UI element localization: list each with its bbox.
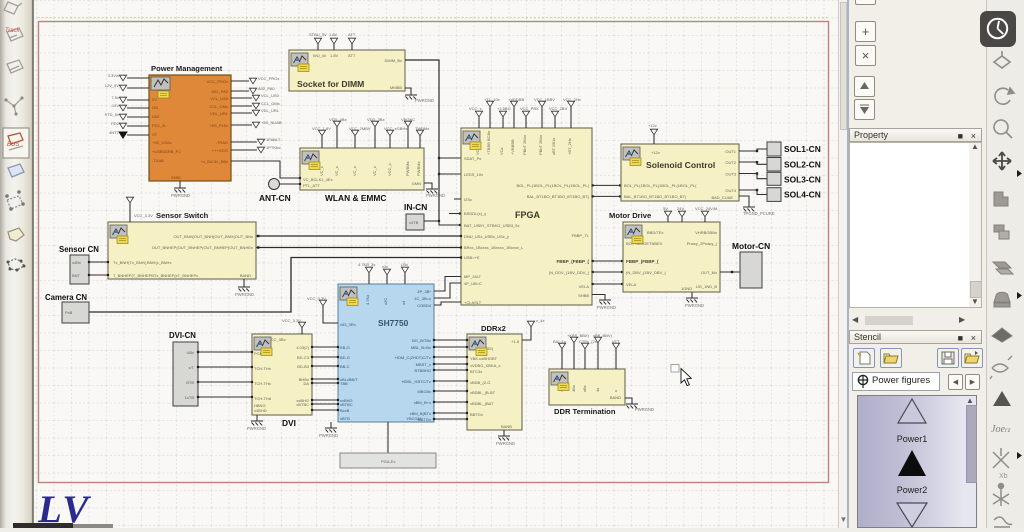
svg-text:+VBBBB: +VBBBB bbox=[510, 139, 515, 155]
svg-text:VC_x: VC_x bbox=[334, 166, 339, 176]
block U2 Socket for DIMM bbox=[289, 50, 405, 91]
stencil list area bbox=[857, 395, 977, 528]
svg-text:HDBL_HBTC/Tx: HDBL_HBTC/Tx bbox=[402, 379, 431, 384]
svg-text:x03_3Rx: x03_3Rx bbox=[340, 322, 356, 327]
wire pin 4NTT bbox=[127, 134, 149, 136]
svg-text:+12v: +12v bbox=[648, 123, 657, 128]
svg-text:STBU_5V: STBU_5V bbox=[309, 32, 327, 37]
block icon U11 bbox=[551, 372, 569, 391]
junction dot motor wire bbox=[731, 271, 733, 273]
svg-text:BOT+BCIGETNBEX: BOT+BCIGETNBEX bbox=[626, 241, 663, 246]
svg-text:BD-B3: BD-B3 bbox=[297, 364, 310, 369]
Stencil panel header bbox=[849, 330, 982, 344]
block icon U1 bbox=[151, 77, 170, 98]
svg-text:x: x bbox=[613, 390, 618, 392]
svg-text:PTL_ATT: PTL_ATT bbox=[303, 183, 320, 188]
svg-text:4C_3B=x: 4C_3B=x bbox=[414, 296, 431, 301]
wire branch row174 bbox=[439, 173, 461, 175]
svg-text:Track: Track bbox=[5, 28, 21, 34]
power symbol VCC_3.3V sensor bbox=[126, 197, 133, 203]
svg-text:TCH-THx: TCH-THx bbox=[254, 366, 271, 371]
wire ddr gnd bbox=[503, 430, 505, 436]
svg-text:x_4x: x_4x bbox=[536, 318, 544, 323]
FPGA right wires to Solenoid bbox=[592, 184, 621, 186]
svg-text:TBB: TBB bbox=[340, 381, 348, 386]
svg-text:T_BNHEP(T_BNHEPBTx_BNHEP(xT_BN: T_BNHEP(T_BNHEPBTx_BNHEP(xT_BNHEPx bbox=[113, 273, 198, 278]
svg-text:DVI-CN: DVI-CN bbox=[169, 331, 196, 340]
svg-text:x/T: x/T bbox=[188, 365, 194, 370]
wire top t7 bbox=[419, 136, 421, 148]
ground sensor bbox=[238, 287, 250, 291]
svg-text:5V: 5V bbox=[663, 206, 668, 211]
wire stub I2Sx bbox=[454, 198, 461, 200]
power symbol VCC_a bbox=[475, 111, 482, 117]
svg-text:PWRGND: PWRGND bbox=[635, 407, 654, 412]
svg-text:VCC_xGBHx: VCC_xGBHx bbox=[384, 126, 407, 131]
block U3 WLAN & EMMC bbox=[300, 148, 424, 203]
Property panel header bbox=[849, 128, 982, 142]
svg-text:1PTKbd: 1PTKbd bbox=[266, 145, 280, 150]
svg-text:OUT_BNH(OUT_BNH(OUT_BNH(OUT_BN: OUT_BNH(OUT_BNH(OUT_BNH(OUT_BNx bbox=[173, 234, 253, 239]
wire top t5 bbox=[389, 136, 391, 148]
LV logo bbox=[38, 487, 90, 532]
svg-text:IN-CN: IN-CN bbox=[404, 202, 427, 212]
power symbol 3.3Vin bbox=[119, 75, 126, 81]
power symbol +12v bbox=[650, 129, 657, 135]
recording clock overlay bbox=[980, 11, 1016, 47]
wire OUT2 bbox=[739, 162, 767, 164]
wire +5S_P10x bbox=[231, 124, 252, 126]
svg-text:+5S_NUAB: +5S_NUAB bbox=[261, 120, 282, 125]
svg-text:DDR Termination: DDR Termination bbox=[554, 407, 616, 416]
PM right pin wires bbox=[231, 81, 300, 178]
left toolbar bbox=[0, 0, 32, 528]
svg-text:Motor-CN: Motor-CN bbox=[732, 241, 770, 251]
svg-text:Tx_BNH(Tx_BNH(,BNH(x_BNHx: Tx_BNH(Tx_BNH(,BNH(x_BNHx bbox=[113, 260, 171, 265]
svg-text:1GND: 1GND bbox=[681, 286, 692, 291]
svg-text:VBGNC: VBGNC bbox=[401, 117, 415, 122]
power symbol 7.5v bbox=[119, 97, 126, 103]
Property panel body bbox=[849, 142, 982, 308]
svg-text:ATT: ATT bbox=[348, 53, 356, 58]
svg-text:VCC_PBX: VCC_PBX bbox=[520, 106, 539, 111]
svg-text:LEDS_10x: LEDS_10x bbox=[464, 172, 483, 177]
power symbol KBS_BBX bbox=[570, 337, 577, 343]
junction dot pin225 bbox=[459, 224, 461, 226]
wire DIMM gnd bbox=[405, 88, 411, 95]
svg-text:OUT4: OUT4 bbox=[725, 188, 736, 193]
wire Motor to Motor-CN bbox=[720, 271, 740, 273]
svg-text:VCC_2Hx: VCC_2Hx bbox=[563, 97, 581, 102]
svg-text:PWRGND: PWRGND bbox=[597, 305, 616, 310]
PM ground wire bbox=[179, 181, 181, 188]
svg-text:UG_1ND_B: UG_1ND_B bbox=[696, 284, 717, 289]
power symbol VCC_d bbox=[510, 101, 517, 107]
svg-text:Camera CN: Camera CN bbox=[45, 293, 87, 302]
svg-text:xBDB_(2-G: xBDB_(2-G bbox=[470, 380, 490, 385]
junction dot row158 bbox=[438, 157, 440, 159]
power symbol VCC_f bbox=[538, 101, 545, 107]
junction dots pin endpoints bbox=[88, 177, 468, 420]
svg-text:VCC_1.8V: VCC_1.8V bbox=[312, 126, 331, 131]
svg-text:BAI_1x: BAI_1x bbox=[553, 339, 566, 344]
power symbol VCC_3.3V dvi bbox=[298, 322, 305, 328]
svg-text:Motor Drive: Motor Drive bbox=[609, 211, 651, 220]
svg-text:VCC_3.3V: VCC_3.3V bbox=[134, 213, 153, 218]
block icon U4 bbox=[463, 131, 481, 150]
power symbol -12V bbox=[119, 105, 126, 111]
svg-text:FPGA: FPGA bbox=[515, 210, 541, 220]
bottom-left dark bar bbox=[13, 523, 73, 528]
svg-text:Sensor Switch: Sensor Switch bbox=[156, 211, 209, 220]
right strip icons bbox=[986, 0, 1024, 528]
wires DVI-CN to DVI bbox=[198, 352, 252, 397]
junction dots solenoid bus bbox=[756, 150, 758, 152]
svg-text:MP_34LT: MP_34LT bbox=[464, 274, 482, 279]
wire IN-CN to riser bbox=[424, 220, 439, 222]
svg-text:4.03(2): 4.03(2) bbox=[296, 345, 309, 350]
svg-text:x2C: x2C bbox=[383, 298, 388, 305]
svg-text:xBM_B+x: xBM_B+x bbox=[414, 400, 431, 405]
svg-text:4.7Kx: 4.7Kx bbox=[365, 295, 370, 305]
power symbol VCC_1.8V bbox=[318, 130, 325, 136]
svg-text:DDRx2: DDRx2 bbox=[481, 324, 506, 333]
block U5 Solenoid Control bbox=[621, 144, 739, 201]
wire motor gnd bbox=[691, 292, 693, 298]
svg-text:BNT: BNT bbox=[72, 273, 81, 278]
svg-text:DIMM_Bx: DIMM_Bx bbox=[384, 58, 402, 63]
panel top buttons bbox=[855, 0, 876, 5]
wire Sensor to FPGA row2 bbox=[256, 247, 461, 249]
svg-text:1xTB: 1xTB bbox=[185, 395, 195, 400]
power symbol ATT bbox=[348, 38, 355, 44]
connector SOL4-CN bbox=[767, 188, 781, 202]
svg-text:PWRGND: PWRGND bbox=[235, 292, 254, 297]
svg-text:SH7750: SH7750 bbox=[378, 318, 409, 328]
svg-text:-12V: -12V bbox=[111, 103, 120, 108]
power symbol VCC_3.3V sh bbox=[319, 300, 326, 306]
svg-text:FBBP_(FBBP_(: FBBP_(FBBP_( bbox=[626, 259, 659, 264]
svg-text:BTBBHG: BTBBHG bbox=[415, 368, 431, 373]
svg-text:PWRGND: PWRGND bbox=[415, 98, 434, 103]
svg-text:BTC3x: BTC3x bbox=[470, 369, 482, 374]
svg-text:SOL2-CN: SOL2-CN bbox=[784, 160, 821, 170]
junction dot pin213 bbox=[459, 212, 461, 214]
svg-text:VCL_US0: VCL_US0 bbox=[261, 93, 280, 98]
connector PGAD bbox=[340, 453, 436, 468]
svg-text:Sensor CN: Sensor CN bbox=[59, 245, 99, 254]
svg-text:VCC_24V/M: VCC_24V/M bbox=[695, 206, 717, 211]
wire pin 7.5v bbox=[127, 99, 149, 101]
svg-text:VHRBGBNx: VHRBGBNx bbox=[695, 230, 717, 235]
wire A02_PA0 bbox=[231, 90, 249, 92]
svg-text:WLAN & EMMC: WLAN & EMMC bbox=[325, 193, 386, 203]
svg-text:VCC_3.3V: VCC_3.3V bbox=[307, 296, 326, 301]
wire SH7750 to PGAD bbox=[387, 422, 389, 453]
svg-text:OUT_Mx: OUT_Mx bbox=[701, 270, 717, 275]
svg-text:VCC_x: VCC_x bbox=[469, 106, 482, 111]
svg-text:Xb: Xb bbox=[999, 473, 1008, 480]
power symbol TWBMx bbox=[416, 130, 423, 136]
power symbol +++GGG bbox=[257, 147, 264, 153]
svg-text:VTT: VTT bbox=[612, 339, 620, 344]
svg-text:4NTT: 4NTT bbox=[109, 130, 120, 135]
svg-text:xBB_BBV): xBB_BBV) bbox=[593, 333, 613, 338]
wire top t2 bbox=[336, 127, 338, 148]
wires DVI to SH7750 bbox=[312, 347, 338, 410]
svg-text:-TRAG: -TRAG bbox=[216, 140, 228, 145]
svg-text:BAL_BT1BO_BT1BO_BT1BO_BT(: BAL_BT1BO_BT1BO_BT1BO_BT( bbox=[624, 194, 687, 199]
wire top t6 bbox=[407, 127, 409, 148]
svg-text:12V_5V: 12V_5V bbox=[105, 83, 120, 88]
power symbol +5S_P10x bbox=[252, 122, 259, 128]
wire top pin3 bbox=[351, 44, 353, 50]
wire top pin2 bbox=[333, 44, 335, 50]
wire top t1 bbox=[321, 136, 323, 148]
power symbol A02_PA0 bbox=[249, 88, 256, 94]
power symbol PD2 bbox=[119, 123, 126, 129]
svg-text:7.5v: 7.5v bbox=[111, 95, 119, 100]
svg-text:PBbT 2B1x: PBbT 2B1x bbox=[522, 135, 527, 155]
FPGA right wires to Motor Drive bbox=[592, 260, 623, 262]
stencil toolbar button: new bbox=[853, 348, 875, 368]
svg-text:SOL3-CN: SOL3-CN bbox=[784, 175, 821, 185]
wire -TRAG bbox=[231, 141, 257, 143]
ground DDR Termination bbox=[626, 404, 638, 408]
svg-text:PWRGND: PWRGND bbox=[319, 433, 338, 438]
power symbol 4.7KR_3x bbox=[365, 267, 372, 273]
wire sh gnd bbox=[330, 422, 332, 428]
svg-text:MBCBx: MBCBx bbox=[417, 389, 431, 394]
property horizontal scrollbar bbox=[849, 315, 970, 326]
power symbol BAI_1x bbox=[558, 343, 565, 349]
svg-text:CTPy_(2x: CTPy_(2x bbox=[579, 339, 597, 344]
svg-text:+5S_P10x: +5S_P10x bbox=[209, 123, 228, 128]
power symbol CTPy bbox=[581, 343, 588, 349]
svg-text:BG_B/TBx: BG_B/TBx bbox=[412, 338, 431, 343]
block icon U2 bbox=[291, 53, 309, 72]
svg-text:1PABLT: 1PABLT bbox=[266, 137, 281, 142]
main schematic canvas bbox=[32, 0, 838, 528]
FPGA top power wires bbox=[479, 107, 571, 128]
svg-text:BBD/TEx: BBD/TEx bbox=[647, 230, 663, 235]
block U4 FPGA bbox=[461, 128, 592, 305]
power symbol LBx bbox=[401, 267, 408, 273]
power symbol +1.8v ddr bbox=[527, 321, 534, 327]
ground DVI bbox=[251, 421, 263, 425]
svg-text:GN: GN bbox=[152, 105, 158, 110]
wire ddr top power bbox=[522, 327, 531, 340]
power symbol VCC_xGBHx bbox=[386, 130, 393, 136]
svg-text:BRxx_1Bxxxx_1Bxxxx_1Bxxxx_L: BRxx_1Bxxxx_1Bxxxx_1Bxxxx_L bbox=[464, 245, 524, 250]
power symbol VCC_24V bbox=[701, 211, 708, 217]
svg-text:Joerz: Joerz bbox=[991, 424, 1011, 435]
ground DDRx2 bbox=[498, 436, 510, 440]
svg-text:BD-G: BD-G bbox=[340, 355, 350, 360]
wire ANT-CN to WLAN bbox=[280, 183, 301, 185]
svg-text:xBT 2B1x: xBT 2B1x bbox=[551, 138, 556, 155]
svg-text:x4TB: x4TB bbox=[409, 220, 419, 225]
svg-text:xBTBC: xBTBC bbox=[340, 402, 353, 407]
power symbol STD_5v bbox=[119, 114, 126, 120]
stencil toolbar button: add folder bbox=[961, 348, 983, 368]
svg-text:CCL_GMx: CCL_GMx bbox=[209, 104, 228, 109]
svg-text:SOL1-CN: SOL1-CN bbox=[784, 144, 821, 154]
svg-text:xBDBL_(B-BT: xBDBL_(B-BT bbox=[470, 390, 496, 395]
svg-text:BSDDL(x)_y: BSDDL(x)_y bbox=[464, 211, 486, 216]
wire pin -12V bbox=[127, 107, 149, 109]
svg-text:+VDDBB: +VDDBB bbox=[508, 97, 524, 102]
wire sensor-cn row2 bbox=[89, 274, 108, 276]
svg-text:PWRGND: PWRGND bbox=[247, 426, 266, 431]
power symbol VCC_c bbox=[499, 111, 506, 117]
svg-text:A02_PA0: A02_PA0 bbox=[211, 89, 228, 94]
block icon U6 bbox=[625, 225, 643, 244]
svg-text:4Bx: 4Bx bbox=[571, 385, 576, 392]
connector DVI-CN bbox=[173, 342, 198, 406]
wire sensor-cn row1 bbox=[89, 261, 108, 263]
svg-text:TCH-THx: TCH-THx bbox=[254, 381, 271, 386]
svg-text:2V: 2V bbox=[152, 97, 157, 102]
power symbol -TRAG bbox=[257, 139, 264, 145]
connector SOL1-CN bbox=[767, 142, 781, 156]
svg-text:ANT-CN: ANT-CN bbox=[259, 193, 291, 203]
wire Camera to FPGA bbox=[89, 258, 461, 313]
svg-text:MBST_x: MBST_x bbox=[416, 362, 431, 367]
wire top pin1 bbox=[317, 44, 319, 50]
FPGA left stub wires bbox=[449, 199, 461, 214]
SH7750 top power wires bbox=[368, 273, 370, 284]
svg-text:+5S_USAx: +5S_USAx bbox=[152, 140, 172, 145]
wire OUT3 bbox=[739, 174, 767, 179]
wire pin 3.3Vin bbox=[127, 77, 149, 79]
block icon U9 bbox=[254, 337, 272, 356]
svg-text:BAND: BAND bbox=[610, 395, 621, 400]
selected tool button bbox=[3, 128, 29, 158]
svg-text:YBK.uxBHGBT: YBK.uxBHGBT bbox=[470, 356, 498, 361]
wire solenoid gnd bbox=[739, 196, 749, 207]
power symbol VDD_4Bx bbox=[333, 121, 340, 127]
block U11 DDR Termination bbox=[549, 369, 625, 416]
svg-text:+USB3GRB_P2: +USB3GRB_P2 bbox=[152, 149, 181, 154]
svg-text:PBbT 2B1x: PBbT 2B1x bbox=[538, 135, 543, 155]
stencil scrollbar bbox=[965, 396, 976, 527]
FPGA gnd wire bbox=[592, 295, 605, 301]
wire pin 12V_5V bbox=[127, 87, 149, 89]
power symbol 5V bbox=[664, 211, 671, 217]
svg-text:x2x: x2x bbox=[382, 264, 388, 269]
wire Sensor to FPGA row1 bbox=[256, 235, 461, 237]
svg-text:KB-G: KB-G bbox=[340, 345, 350, 350]
block U9 DVI bbox=[252, 334, 312, 428]
power symbol VCL_US0 bbox=[252, 95, 259, 101]
power symbol VCC_2MBV bbox=[351, 130, 358, 136]
block U7 Sensor Switch bbox=[108, 211, 256, 279]
svg-text:GMN: GMN bbox=[412, 181, 421, 186]
canvas background bbox=[33, 0, 839, 528]
svg-text:VCC_2BV: VCC_2BV bbox=[549, 106, 568, 111]
wire pin PD2 bbox=[127, 125, 149, 127]
svg-text:xBx: xBx bbox=[582, 385, 587, 392]
svg-text:VCC_PROx: VCC_PROx bbox=[258, 76, 279, 81]
canvas vertical scrollbar bbox=[838, 0, 847, 528]
svg-text:4x: 4x bbox=[595, 388, 600, 392]
svg-text:VDL_URL: VDL_URL bbox=[210, 111, 229, 116]
svg-text:HBNG: HBNG bbox=[254, 403, 266, 408]
svg-text:OUT2: OUT2 bbox=[725, 160, 736, 165]
svg-text:+TL_10x: +TL_10x bbox=[484, 97, 500, 102]
svg-text:VC_x: VC_x bbox=[352, 166, 357, 176]
stencil item Power3 (inverted triangle, cut off) bbox=[895, 501, 929, 528]
wire VCC_PROx bbox=[231, 80, 249, 82]
svg-text:VCC_PROx: VCC_PROx bbox=[207, 79, 228, 84]
svg-text:+x_BA-54_BBx: +x_BA-54_BBx bbox=[201, 159, 228, 164]
svg-text:MMBB: MMBB bbox=[390, 85, 402, 90]
svg-text:CCL_GMx: CCL_GMx bbox=[261, 101, 280, 106]
svg-text:PGA-Ex: PGA-Ex bbox=[381, 459, 395, 464]
svg-text:USB=+E: USB=+E bbox=[464, 255, 480, 260]
stencil toolbar button: save bbox=[937, 348, 959, 368]
left toolbar icons bbox=[0, 0, 32, 528]
svg-text:ATT: ATT bbox=[348, 32, 356, 37]
svg-text:+CLASLT: +CLASLT bbox=[464, 300, 482, 305]
svg-text:PxB: PxB bbox=[65, 310, 73, 315]
svg-text:VCL_US0: VCL_US0 bbox=[210, 96, 229, 101]
power symbol CCL_GMx bbox=[252, 103, 259, 109]
stencil toolbar button: open bbox=[880, 348, 902, 368]
svg-text:x4BHD: x4BHD bbox=[254, 408, 267, 413]
block U1 Power Management bbox=[149, 64, 231, 181]
svg-text:+2.5BG: +2.5BG bbox=[497, 106, 511, 111]
svg-text:VELA: VELA bbox=[579, 284, 590, 289]
block icon U10 bbox=[469, 337, 487, 356]
svg-text:DVI: DVI bbox=[282, 418, 296, 428]
block icon U7 bbox=[110, 225, 128, 244]
connector SOL2-CN bbox=[767, 158, 781, 172]
ground PM bbox=[174, 188, 186, 192]
wire WLAN gnd bbox=[424, 183, 432, 189]
wire DIMM_Bx riser bbox=[405, 60, 439, 221]
block icon U8 bbox=[340, 287, 358, 306]
connector IN-CN bbox=[406, 214, 424, 230]
wire pin STD_5v bbox=[127, 116, 149, 118]
canvas left edge line bbox=[33, 0, 35, 528]
ground WLAN bbox=[426, 189, 438, 193]
svg-text:VDD_3Bx: VDD_3Bx bbox=[367, 117, 385, 122]
svg-text:xBDBL_(BAT: xBDBL_(BAT bbox=[470, 401, 494, 406]
svg-text:4.7KB_3x: 4.7KB_3x bbox=[358, 262, 375, 267]
svg-text:WU_4x: WU_4x bbox=[313, 53, 326, 58]
connector ANT-CN bbox=[269, 179, 280, 190]
junction dot row174 bbox=[438, 173, 440, 175]
PM left pin wires bbox=[127, 78, 149, 135]
wire solenoid top power bbox=[653, 135, 655, 144]
svg-text:xBTBC: xBTBC bbox=[296, 402, 309, 407]
svg-text:SHBB: SHBB bbox=[578, 293, 589, 298]
svg-text:PWRGND: PWRGND bbox=[685, 303, 704, 308]
svg-text:xBTB: xBTB bbox=[340, 416, 350, 421]
svg-text:HDM_C(2HDT)C/Tx: HDM_C(2HDT)C/Tx bbox=[395, 355, 431, 360]
svg-text:PD2: PD2 bbox=[111, 121, 120, 126]
svg-text:1.8V: 1.8V bbox=[330, 53, 339, 58]
wire branch row158 bbox=[439, 157, 461, 159]
svg-text:BANB: BANB bbox=[501, 424, 512, 429]
ddr term top power wires bbox=[561, 349, 563, 369]
page border bbox=[39, 22, 829, 483]
wire top t3 bbox=[354, 136, 356, 148]
svg-text:FBBP_(FBBP_(: FBBP_(FBBP_( bbox=[556, 259, 589, 264]
svg-text:TPGND_PCURE: TPGND_PCURE bbox=[743, 211, 775, 216]
